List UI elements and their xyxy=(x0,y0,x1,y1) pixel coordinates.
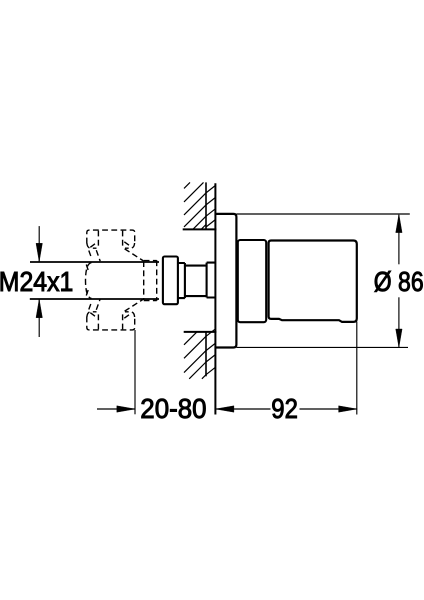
bottom port hex nut inner flats xyxy=(98,312,122,330)
stem section xyxy=(185,266,207,297)
wall plaster hatch upper segment xyxy=(206,186,215,227)
wall hatch upper segment 45deg lines xyxy=(184,182,206,229)
bottom port hex nut chamfer diagonals xyxy=(90,313,132,319)
dimension line 92 right segment with right arrow xyxy=(300,408,358,410)
wall hole top cap line xyxy=(183,228,217,230)
pipe / thread outline M24x1 (bottom line) xyxy=(30,298,159,300)
escutcheon plate xyxy=(215,214,236,348)
svg-text:20-80: 20-80 xyxy=(140,393,206,424)
top port hex nut (dashed) xyxy=(87,230,135,243)
extension line diameter bottom xyxy=(237,346,409,348)
extension line below bottom port xyxy=(134,330,136,414)
wall surface line (also extension line for dims) xyxy=(214,183,216,414)
svg-text:Ø 86: Ø 86 xyxy=(374,266,424,297)
wall hatch lower segment 45deg lines xyxy=(184,332,206,379)
wall sleeve section xyxy=(207,263,215,298)
step ring xyxy=(178,263,185,298)
dimension line diameter 86 upper with up arrow xyxy=(398,215,400,264)
wall plaster hatch lower segment xyxy=(206,329,215,374)
dimension M24x1 upper line with down arrow xyxy=(38,226,40,262)
valve body left end cap (dashed arc) xyxy=(86,263,92,299)
top port neck flare right, long diagonal to bonnet xyxy=(125,249,144,261)
extension line from grip front xyxy=(356,322,358,415)
top port neck flare left (dashed diagonals) xyxy=(86,250,100,272)
bonnet section verticals (dashed) xyxy=(144,260,157,301)
handle grip body xyxy=(269,241,357,322)
bonnet section top and bottom dashed connectors xyxy=(144,261,157,301)
wall hole bottom cap line xyxy=(184,331,217,333)
flange (large collar) xyxy=(163,257,178,305)
svg-text:M24x1: M24x1 xyxy=(0,266,73,297)
bottom port neck flare right, long diagonal to bonnet xyxy=(125,299,144,311)
dimension line diameter 86 lower with down arrow xyxy=(398,297,400,347)
dimension line 92 left segment with left arrow xyxy=(215,408,270,410)
svg-text:92: 92 xyxy=(271,393,298,424)
top port hex nut chamfer diagonals xyxy=(90,242,132,248)
bottom port hex nut (dashed) xyxy=(87,317,135,330)
wall inner line, lower segment xyxy=(205,332,207,376)
adapter sleeve between escutcheon and grip xyxy=(238,240,266,322)
dimension M24x1 lower line with up arrow xyxy=(38,299,40,337)
dimension line 20-80 left tail and arrow xyxy=(97,408,135,410)
wall inner line, upper segment xyxy=(205,182,207,229)
pipe / thread outline M24x1 (top line) xyxy=(30,261,159,263)
extension line diameter top xyxy=(237,213,410,215)
bottom port neck flare left (dashed diagonals) xyxy=(86,288,100,310)
top port hex nut inner flats xyxy=(98,231,122,249)
